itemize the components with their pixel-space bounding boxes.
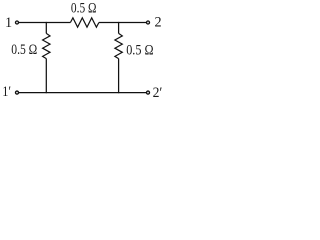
wire left branch upper stub — [45, 22, 47, 34]
svg-text:0.5 Ω: 0.5 Ω — [71, 1, 97, 17]
svg-text:0.5 Ω: 0.5 Ω — [126, 43, 153, 59]
resistor R_shunt_left 0.5 ohm (vertical zigzag) — [43, 33, 50, 58]
svg-text:2′: 2′ — [153, 85, 163, 101]
wire right branch lower stub — [118, 59, 120, 94]
resistor R_series 0.5 ohm (top, horizontal zigzag) — [70, 18, 99, 27]
wire top-right: series resistor to terminal 2 — [99, 22, 146, 24]
svg-text:1: 1 — [5, 15, 12, 31]
wire top-left: terminal 1 to series resistor — [19, 22, 71, 24]
wire bottom rail: 1' to 2' — [19, 92, 146, 94]
wire left branch lower stub — [45, 59, 47, 94]
svg-text:1′: 1′ — [2, 84, 11, 100]
svg-text:2: 2 — [155, 15, 162, 31]
resistor R_shunt_right 0.5 ohm (vertical zigzag) — [115, 33, 122, 58]
terminal 2 (top-right port) — [147, 21, 150, 24]
svg-text:0.5 Ω: 0.5 Ω — [11, 42, 37, 58]
terminal 1 (top-left port) — [16, 21, 19, 24]
terminal 2' (bottom-right port) — [147, 91, 150, 94]
wire right branch upper stub — [118, 22, 120, 34]
terminal 1' (bottom-left port) — [16, 91, 19, 94]
